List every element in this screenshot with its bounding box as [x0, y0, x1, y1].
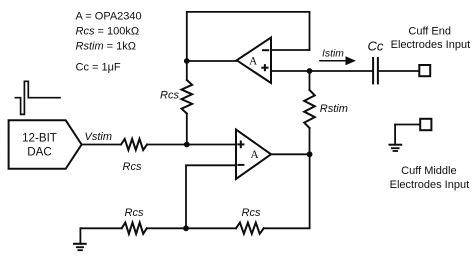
op-amp A2 (pointing right)	[236, 130, 271, 180]
A2 noninverting pin plus sign	[237, 141, 244, 149]
svg-text:Electrodes Input: Electrodes Input	[391, 39, 471, 51]
resistor Rcs (feedback, vertical)	[182, 80, 193, 114]
resistor Rcs (series, horizontal)	[121, 139, 147, 150]
wire cuff middle electrode to ground	[395, 124, 419, 126]
electrode terminal (cuff middle)	[420, 119, 431, 130]
wire down to ground (right)	[394, 125, 396, 145]
wire A2 output to node	[271, 153, 310, 155]
capacitor Cc	[373, 58, 378, 84]
wire Istim node to capacitor Cc	[310, 70, 373, 72]
wire feedback loop over the top	[187, 12, 310, 61]
wire Vstim junction to op-amp A2 noninverting input	[187, 144, 236, 146]
svg-text:Rcs: Rcs	[125, 207, 144, 219]
wire Rcs (bottom right) up to A2 output node	[264, 154, 310, 228]
svg-text:DAC: DAC	[27, 146, 51, 159]
A2 inverting pin minus sign	[237, 164, 244, 166]
svg-text:Vstim: Vstim	[85, 131, 113, 143]
svg-text:Cuff Middle: Cuff Middle	[401, 165, 456, 177]
svg-text:A: A	[249, 55, 257, 67]
wire DAC output to Rcs series resistor	[82, 144, 121, 146]
wire Rcs to Vstim junction	[147, 144, 186, 146]
svg-text:A: A	[251, 149, 259, 161]
resistor Rcs (bottom left)	[122, 223, 147, 234]
svg-text:Cc: Cc	[368, 39, 384, 54]
label Cuff Middle Electrodes Input	[390, 165, 470, 191]
svg-text:Rcs: Rcs	[242, 207, 261, 219]
svg-text:Rcs = 100kΩ: Rcs = 100kΩ	[76, 25, 140, 37]
wire Rcs to bottom junction	[147, 227, 186, 229]
node Vstim junction	[184, 142, 190, 148]
wire ground to Rcs (bottom left)	[80, 227, 121, 229]
svg-text:Rcs: Rcs	[160, 90, 179, 102]
svg-text:Rstim = 1kΩ: Rstim = 1kΩ	[76, 40, 137, 52]
ground (left)	[74, 228, 86, 250]
wire to A1 inverting input	[271, 49, 310, 51]
wire A1 output node to Rcs feedback resistor	[186, 61, 188, 80]
node op-amp A2 output junction	[307, 151, 313, 157]
wire A1 noninverting input to Istim node	[271, 70, 310, 72]
svg-text:Cc = 1μF: Cc = 1μF	[76, 61, 121, 73]
wire bottom junction to Rcs (bottom right)	[186, 227, 236, 229]
label Istim with current arrow	[320, 48, 356, 65]
DAC block 12-BIT DAC	[9, 120, 82, 169]
node op-amp A1 output junction	[184, 58, 190, 64]
A1 noninverting pin plus sign	[261, 64, 268, 71]
biphasic stimulus pulse waveform	[15, 81, 60, 114]
svg-text:Electrodes Input: Electrodes Input	[390, 179, 470, 191]
node bottom junction	[183, 225, 189, 231]
wire capacitor to cuff end electrode terminal	[379, 70, 419, 72]
wire Rcs feedback to Vstim junction	[186, 114, 188, 145]
svg-text:Rcs: Rcs	[123, 161, 142, 173]
ground (right)	[390, 145, 402, 151]
svg-text:12-BIT: 12-BIT	[22, 132, 57, 145]
wire A1 output to node	[187, 60, 237, 62]
wire A2 inverting input to bottom junction	[186, 165, 236, 228]
op-amp A1 (pointing left)	[237, 38, 271, 84]
label Cuff End Electrodes Input	[391, 25, 471, 51]
node Istim junction	[307, 68, 313, 74]
svg-text:A = OPA2340: A = OPA2340	[76, 10, 142, 22]
resistor Rcs (bottom right)	[236, 223, 264, 234]
svg-text:Rstim: Rstim	[320, 103, 348, 115]
electrode terminal (cuff end)	[419, 65, 430, 76]
wire Istim node to Rstim	[309, 71, 311, 90]
resistor Rstim (vertical)	[304, 90, 315, 128]
wire Rstim to A2 output node	[309, 128, 311, 154]
A1 inverting pin minus sign	[262, 49, 269, 51]
svg-text:Istim: Istim	[322, 48, 344, 59]
svg-text:Cuff End: Cuff End	[408, 25, 451, 37]
